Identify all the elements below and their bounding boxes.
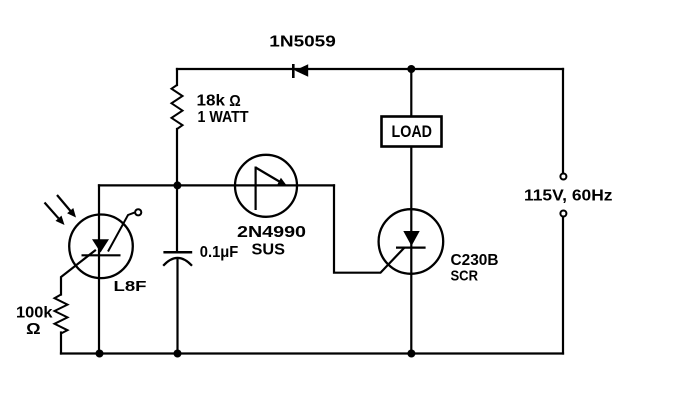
wire 100k branch diagonal (61, 251, 95, 295)
transistor Q1 light arrow 2 line (45, 203, 59, 219)
wire left branch mid (176, 129, 178, 251)
thyristor Q2 SCR cathode bar (396, 247, 426, 249)
capacitor C1 curved plate (163, 258, 192, 266)
wire mid horizontal (99, 184, 334, 186)
svg-text:2N4990: 2N4990 (237, 224, 306, 241)
svg-text:Ω: Ω (229, 93, 241, 110)
capacitor C1 top plate (163, 251, 192, 254)
transistor Q1 L8F gate lead (108, 212, 135, 251)
wire right drop upper (562, 69, 564, 173)
wire SUS to SCR gate (334, 185, 404, 272)
transistor Q1 L8F circle (69, 215, 133, 279)
svg-text:LOAD: LOAD (392, 123, 433, 141)
svg-text:1N5059: 1N5059 (269, 33, 336, 50)
node B junction dot mid (173, 181, 181, 189)
diode D1 1N5059 triangle (295, 64, 308, 77)
wire left branch below capacitor (176, 259, 178, 354)
wire top rail (177, 68, 563, 70)
node A junction dot top (407, 65, 415, 73)
svg-text:L8F: L8F (114, 278, 147, 295)
source terminal lower (560, 211, 566, 217)
wire right drop lower (562, 217, 564, 354)
thyristor Q2 SCR anode triangle (403, 231, 419, 246)
transistor Q1 L8F gate terminal (135, 209, 141, 215)
wire left branch upper (176, 69, 178, 85)
svg-text:Ω: Ω (26, 321, 41, 338)
wire SCR/LOAD vertical (410, 69, 412, 354)
op-amp U1 SUS arrowhead (277, 178, 286, 185)
svg-text:SCR: SCR (451, 267, 479, 284)
node D junction dot bottom cap (174, 350, 182, 358)
wire L8F vertical (98, 185, 100, 353)
transistor Q1 light arrow 1 line (57, 195, 71, 211)
transistor Q1 light arrow 1 head (67, 208, 76, 218)
svg-text:SUS: SUS (252, 241, 286, 258)
op-amp U1 SUS diagonal (256, 168, 281, 183)
wire bottom rail (61, 352, 563, 354)
svg-text:1 WATT: 1 WATT (198, 109, 249, 126)
wire 100k branch lower (60, 333, 62, 354)
svg-text:0.1μF: 0.1μF (200, 244, 239, 261)
svg-text:18k: 18k (197, 93, 226, 110)
resistor R1 18k zigzag (172, 85, 183, 129)
resistor R2 100k zigzag (55, 295, 68, 334)
transistor Q1 light arrow 2 head (56, 216, 65, 225)
transistor Q1 L8F cathode bar (82, 254, 121, 256)
svg-text:C230B: C230B (451, 252, 499, 269)
load box (382, 117, 442, 147)
op-amp U1 SUS 2N4990 circle (235, 155, 297, 217)
node E junction dot bottom SCR (407, 350, 415, 358)
op-amp U1 SUS cathode post (255, 167, 257, 211)
transistor Q1 L8F anode triangle (92, 239, 109, 252)
source terminal upper (560, 174, 566, 180)
diode D1 1N5059 bar (292, 64, 295, 78)
node C junction dot bottom left (96, 350, 104, 358)
thyristor Q2 C230B SCR circle (379, 209, 444, 274)
svg-text:100k: 100k (16, 304, 53, 321)
svg-text:115V, 60Hz: 115V, 60Hz (524, 187, 613, 204)
